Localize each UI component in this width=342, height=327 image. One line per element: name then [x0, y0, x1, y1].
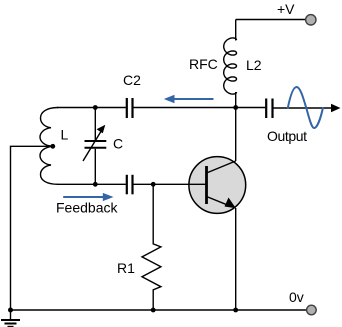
wire: +V down to L2 [235, 20, 237, 41]
ground [1, 310, 20, 327]
svg-text:+V: +V [277, 1, 295, 17]
node: tank bottom left [93, 182, 98, 187]
transistor Q1 [189, 157, 246, 214]
wire: bottom rail [11, 309, 307, 311]
inductor L [40, 108, 58, 185]
svg-text:C: C [113, 136, 123, 152]
wire: collector [235, 108, 237, 162]
node: tap [50, 144, 55, 149]
svg-text:RFC: RFC [189, 56, 218, 72]
node: emitter bottom [233, 308, 238, 313]
wire: feedback cap to base node [134, 183, 207, 185]
wire: emitter down [235, 208, 237, 310]
node: top of C [93, 105, 98, 110]
capacitor output [266, 99, 272, 119]
svg-text:L2: L2 [246, 57, 262, 73]
wire: top rail left [57, 107, 126, 109]
wire: output line [274, 107, 334, 109]
wire: C bottom [94, 149, 96, 185]
svg-text:Feedback: Feedback [56, 200, 118, 216]
wire: node to output cap [236, 107, 266, 109]
wire: C top [94, 108, 96, 141]
inductor L2 [224, 38, 237, 94]
node: ground left [8, 308, 13, 313]
node: top collector [233, 105, 238, 110]
wire: +V rail [236, 19, 306, 21]
terminal +V [306, 15, 316, 25]
svg-text:0v: 0v [289, 289, 304, 305]
arrow: current left [164, 95, 214, 104]
svg-text:R1: R1 [117, 260, 135, 276]
wire: tap to left rail [11, 146, 53, 310]
wire: bottom rail of tank [57, 183, 126, 185]
wire: L2 to top node [235, 92, 237, 108]
sine wave [288, 87, 323, 128]
capacitor feedback [127, 175, 133, 195]
svg-text:L: L [61, 127, 69, 143]
node: R1 bottom [151, 308, 156, 313]
svg-text:Output: Output [267, 128, 307, 144]
capacitor C (variable) [85, 141, 107, 148]
wire: C2 to node [134, 107, 236, 109]
capacitor C2 [127, 98, 133, 118]
arrow: feedback [63, 196, 103, 198]
terminal 0v [307, 305, 317, 315]
resistor R1 [142, 184, 161, 310]
arrow: variable cap [83, 131, 102, 162]
arrowhead output [331, 104, 341, 112]
svg-text:C2: C2 [123, 72, 141, 88]
node: base/R1 [151, 182, 156, 187]
